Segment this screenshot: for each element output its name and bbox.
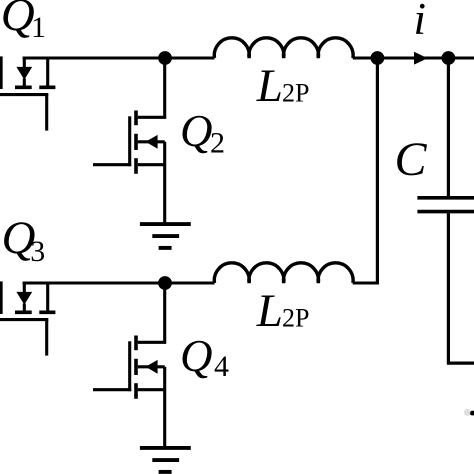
svg-text:4: 4 bbox=[214, 350, 229, 383]
svg-text:Q: Q bbox=[1, 0, 35, 41]
svg-text:Q: Q bbox=[180, 331, 213, 381]
svg-text:Q: Q bbox=[180, 106, 213, 156]
svg-text:2P: 2P bbox=[282, 304, 309, 333]
svg-text:2: 2 bbox=[210, 127, 225, 160]
svg-text:C: C bbox=[395, 133, 428, 186]
svg-text:1: 1 bbox=[31, 11, 46, 44]
svg-text:i: i bbox=[414, 0, 427, 44]
svg-text:3: 3 bbox=[30, 235, 45, 268]
svg-text:L: L bbox=[256, 285, 283, 337]
svg-text:2P: 2P bbox=[282, 79, 309, 108]
svg-text:L: L bbox=[256, 60, 283, 112]
